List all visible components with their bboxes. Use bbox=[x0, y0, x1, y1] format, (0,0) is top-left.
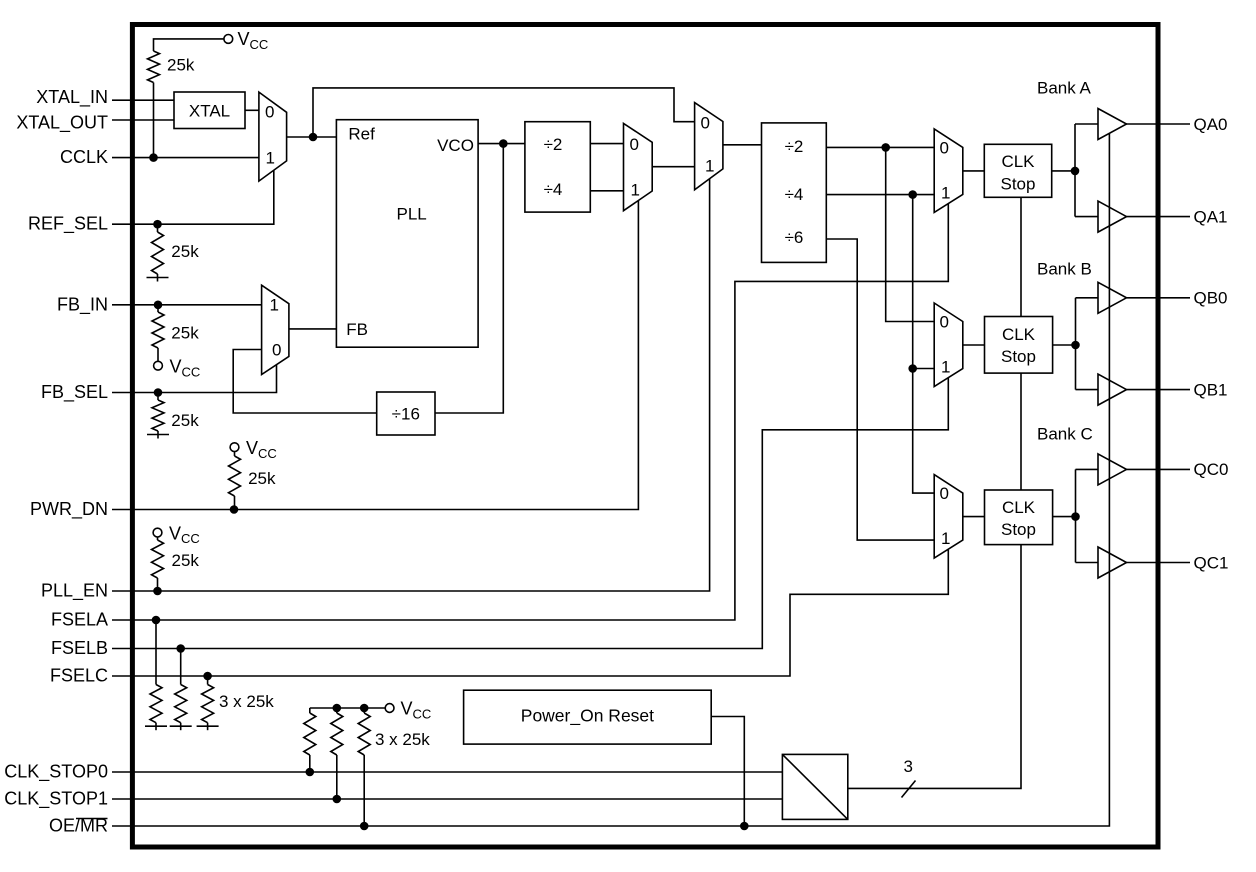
wire QA0 output bbox=[1127, 123, 1191, 125]
wire FB_IN to mux U3 input 1 bbox=[112, 301, 262, 310]
wire QB1 output bbox=[1127, 389, 1191, 391]
svg-text:Bank B: Bank B bbox=[1037, 260, 1092, 279]
Vcc symbol (CLK_STOP pull-ups) bbox=[310, 699, 431, 722]
svg-text:1: 1 bbox=[270, 296, 279, 315]
output buffer QB1 bbox=[1098, 374, 1127, 405]
pin label FB_SEL bbox=[41, 382, 108, 403]
resistor R3 25k (FB_IN pull-up) bbox=[152, 305, 199, 362]
output buffer QC0 bbox=[1098, 454, 1127, 485]
svg-text:25k: 25k bbox=[172, 551, 200, 570]
wire /4 out to bank A mux input 1, bank B mux input 1, bank C mux input 0 bbox=[826, 190, 934, 493]
ground (REF_SEL) bbox=[147, 274, 169, 282]
svg-text:1: 1 bbox=[266, 148, 275, 167]
wire /2 out to mux U4a input 0 bbox=[590, 143, 623, 145]
svg-text:÷4: ÷4 bbox=[785, 185, 804, 204]
pin label QB1 bbox=[1194, 380, 1228, 399]
svg-text:VCC: VCC bbox=[401, 699, 432, 722]
pin label QC0 bbox=[1194, 460, 1229, 479]
svg-text:VCC: VCC bbox=[238, 29, 269, 52]
wire XTAL_IN bbox=[112, 99, 174, 101]
svg-text:Stop: Stop bbox=[1001, 347, 1036, 366]
CLK Stop block B bbox=[985, 317, 1053, 374]
wire FSELA to bank A mux select bbox=[112, 204, 948, 625]
resistor R12 (OE/MR pull-up) bbox=[358, 708, 370, 826]
svg-text:0: 0 bbox=[701, 114, 710, 133]
svg-text:÷2: ÷2 bbox=[544, 135, 563, 154]
mux U7 (bank C select) bbox=[934, 475, 963, 558]
svg-text:Power_On Reset: Power_On Reset bbox=[521, 706, 654, 727]
pin label PWR_DN bbox=[30, 499, 108, 520]
pin label QA0 bbox=[1194, 115, 1228, 134]
resistor R9 (FSELC pull-down) bbox=[197, 676, 219, 730]
wire mux U3 output to PLL FB bbox=[289, 328, 337, 330]
Vcc symbol (CCLK pull-up) bbox=[224, 29, 268, 52]
mux U4 (PLL enable select) bbox=[695, 103, 723, 190]
svg-text:1: 1 bbox=[941, 183, 950, 202]
wire CLK Stop A output branch bbox=[1052, 124, 1098, 217]
pin label CLK_STOP0 bbox=[4, 762, 108, 783]
svg-text:QC1: QC1 bbox=[1194, 553, 1229, 572]
svg-text:VCO: VCO bbox=[437, 136, 474, 155]
output buffer QC1 bbox=[1098, 547, 1127, 578]
resistor R6 25k (PLL_EN pull-up) bbox=[152, 537, 200, 591]
Vcc symbol (FB_IN pull-up) bbox=[154, 357, 201, 380]
svg-text:25k: 25k bbox=[171, 411, 199, 430]
pin label OE/MR with overline on MR bbox=[49, 816, 108, 836]
svg-text:3 x 25k: 3 x 25k bbox=[375, 730, 430, 749]
wire /2 out to bank A mux input 0 and bank B mux input 0 bbox=[826, 143, 934, 321]
svg-text:CLK_STOP0: CLK_STOP0 bbox=[4, 762, 108, 783]
svg-text:QA0: QA0 bbox=[1194, 115, 1228, 134]
resistor R5 25k (PWR_DN pull-up) bbox=[229, 451, 277, 509]
svg-text:FSELC: FSELC bbox=[50, 666, 108, 686]
wire OE/MR line and buffer enable rail bbox=[112, 133, 1109, 830]
svg-text:Stop: Stop bbox=[1001, 520, 1036, 539]
label Bank B bbox=[1037, 260, 1092, 279]
label 3 x 25k (FSEL resistors) bbox=[219, 692, 274, 711]
wire REF_SEL to mux U1 select bbox=[112, 170, 274, 228]
wire CCLK to mux U1 input 1 bbox=[112, 153, 259, 162]
resistor R8 (FSELB pull-down) bbox=[170, 649, 192, 731]
CLK Stop block C bbox=[985, 490, 1053, 545]
svg-text:PLL: PLL bbox=[397, 205, 427, 224]
wire bank C mux to CLK Stop C bbox=[963, 516, 985, 518]
divider /2 /4 box bbox=[525, 122, 590, 212]
svg-text:XTAL_IN: XTAL_IN bbox=[36, 87, 108, 108]
wire mux U4 output to divider bank bbox=[723, 144, 762, 146]
mux U4a (VCO divider select) bbox=[624, 123, 653, 210]
svg-text:REF_SEL: REF_SEL bbox=[28, 214, 108, 235]
label Bank A bbox=[1037, 79, 1092, 98]
wire QA1 output bbox=[1127, 216, 1191, 218]
svg-text:25k: 25k bbox=[167, 56, 195, 75]
svg-text:Ref: Ref bbox=[348, 125, 375, 144]
svg-text:25k: 25k bbox=[248, 469, 276, 488]
svg-text:CCLK: CCLK bbox=[60, 147, 108, 167]
wire Power_On Reset to OE/MR node bbox=[711, 717, 744, 827]
label Bank C bbox=[1037, 425, 1093, 444]
CLK Stop block A bbox=[984, 144, 1051, 197]
wire FB_SEL to mux U3 select bbox=[112, 365, 277, 397]
wire PLL bypass feedforward (node to mux U4 input 0) bbox=[313, 88, 695, 137]
ground (FB_SEL) bbox=[147, 431, 169, 439]
wire R1 to CCLK node bbox=[153, 83, 155, 158]
wire clk-stop control bus (3) bbox=[848, 197, 1021, 788]
svg-text:VCC: VCC bbox=[169, 523, 200, 546]
wire VCO to /16 input bbox=[435, 144, 503, 413]
pin label QA1 bbox=[1194, 207, 1228, 226]
svg-text:QA1: QA1 bbox=[1194, 207, 1228, 226]
wire Vcc to resistor R1 bbox=[154, 39, 225, 51]
svg-text:÷2: ÷2 bbox=[785, 137, 804, 156]
svg-text:÷6: ÷6 bbox=[785, 228, 804, 247]
svg-text:FSELA: FSELA bbox=[51, 610, 108, 630]
pin label XTAL_IN bbox=[36, 87, 108, 108]
pin label PLL_EN bbox=[41, 581, 108, 602]
svg-text:CLK: CLK bbox=[1002, 325, 1036, 344]
svg-text:FSELB: FSELB bbox=[51, 638, 108, 658]
svg-text:0: 0 bbox=[940, 484, 949, 503]
resistor R1 25k (CCLK pull-up) bbox=[148, 51, 195, 83]
wire XTAL_OUT bbox=[112, 119, 174, 121]
svg-text:÷16: ÷16 bbox=[392, 405, 420, 424]
wire /16 output to mux U3 input 0 bbox=[233, 350, 377, 414]
svg-text:PWR_DN: PWR_DN bbox=[30, 499, 108, 520]
svg-text:3: 3 bbox=[904, 757, 913, 776]
svg-text:25k: 25k bbox=[171, 324, 199, 343]
svg-text:25k: 25k bbox=[171, 242, 199, 261]
wire FSELC to bank C mux select bbox=[112, 550, 948, 681]
svg-text:0: 0 bbox=[940, 313, 949, 332]
pin label FSELA bbox=[51, 610, 108, 630]
wire FSELB to bank B mux select bbox=[112, 378, 948, 653]
wire CLK Stop C output branch bbox=[1053, 469, 1098, 562]
svg-text:CLK: CLK bbox=[1001, 152, 1035, 171]
output buffer QA1 bbox=[1098, 201, 1127, 232]
wire bank A mux to CLK Stop A bbox=[963, 170, 985, 172]
output buffer QA0 bbox=[1098, 109, 1127, 140]
PLL block U2 bbox=[336, 120, 478, 348]
svg-text:0: 0 bbox=[272, 340, 281, 359]
svg-text:1: 1 bbox=[631, 181, 640, 200]
svg-text:1: 1 bbox=[705, 157, 714, 176]
wire CLK_STOP0 bbox=[112, 768, 782, 777]
mux U3 (feedback select) bbox=[262, 285, 289, 374]
wire QC0 output bbox=[1127, 468, 1191, 470]
wire CLK Stop B output branch bbox=[1053, 298, 1098, 390]
resistor R10 (CLK_STOP0 pull-up) bbox=[304, 708, 316, 772]
wire mux U4a output to mux U4 input 1 bbox=[652, 166, 694, 168]
mux U1 (reference select) bbox=[259, 92, 287, 181]
svg-text:FB: FB bbox=[346, 320, 368, 339]
wire /4 out to mux U4a input 1 bbox=[590, 190, 623, 192]
svg-text:PLL_EN: PLL_EN bbox=[41, 581, 108, 602]
svg-text:0: 0 bbox=[265, 102, 274, 121]
Vcc symbol (PWR_DN pull-up) bbox=[230, 438, 277, 461]
Power_On Reset block bbox=[464, 690, 712, 744]
svg-text:0: 0 bbox=[630, 135, 639, 154]
svg-text:1: 1 bbox=[941, 529, 950, 548]
resistor R7 (FSELA pull-down) bbox=[145, 620, 167, 730]
wire /6 out to bank C mux input 1 bbox=[826, 239, 934, 540]
wire CLK_STOP1 bbox=[112, 795, 782, 804]
wire QB0 output bbox=[1127, 297, 1191, 299]
svg-text:Bank A: Bank A bbox=[1037, 79, 1092, 98]
mux U5 (bank A select) bbox=[934, 129, 963, 213]
XTAL oscillator box bbox=[174, 92, 245, 129]
svg-text:QB0: QB0 bbox=[1194, 289, 1228, 308]
wire bank B mux to CLK Stop B bbox=[963, 344, 985, 346]
output buffer QB0 bbox=[1098, 282, 1127, 313]
svg-text:3 x 25k: 3 x 25k bbox=[219, 692, 274, 711]
svg-text:FB_IN: FB_IN bbox=[57, 294, 108, 315]
Vcc symbol (PLL_EN pull-up) bbox=[153, 523, 200, 546]
label 3 x 25k (CLK_STOP resistors) bbox=[375, 730, 430, 749]
resistor R2 25k (REF_SEL pull-down) bbox=[152, 224, 200, 274]
wire VCO output bbox=[478, 139, 525, 148]
pin label CLK_STOP1 bbox=[4, 789, 108, 810]
mux U6 (bank B select) bbox=[934, 303, 963, 387]
svg-text:CLK_STOP1: CLK_STOP1 bbox=[4, 789, 108, 810]
pin label FB_IN bbox=[57, 294, 108, 315]
svg-text:0: 0 bbox=[940, 139, 949, 158]
chip outline border bbox=[132, 25, 1158, 848]
svg-text:Stop: Stop bbox=[1001, 175, 1036, 194]
wire QC1 output bbox=[1127, 562, 1191, 564]
wire mux U1 output to PLL Ref bbox=[287, 133, 337, 142]
pin label FSELC bbox=[50, 666, 108, 686]
pin label REF_SEL bbox=[28, 214, 108, 235]
svg-text:CLK: CLK bbox=[1002, 498, 1036, 517]
pin label XTAL_OUT bbox=[16, 113, 108, 134]
wire XTAL out to mux U1 input 0 bbox=[245, 109, 259, 111]
svg-text:1: 1 bbox=[941, 357, 950, 376]
svg-text:QB1: QB1 bbox=[1194, 380, 1228, 399]
divider /16 box bbox=[377, 392, 435, 435]
svg-text:VCC: VCC bbox=[170, 357, 201, 380]
wire PWR_DN to mux U4a select bbox=[112, 201, 638, 514]
bus width marker 3 with slash bbox=[902, 757, 916, 798]
pin label FSELB bbox=[51, 638, 108, 658]
svg-text:QC0: QC0 bbox=[1194, 460, 1229, 479]
svg-text:FB_SEL: FB_SEL bbox=[41, 382, 108, 403]
svg-text:XTAL: XTAL bbox=[189, 102, 230, 121]
pin label CCLK bbox=[60, 147, 108, 167]
svg-text:XTAL_OUT: XTAL_OUT bbox=[16, 113, 108, 134]
pin label QC1 bbox=[1194, 553, 1229, 572]
resistor R11 (CLK_STOP1 pull-up) bbox=[331, 708, 343, 799]
pin label QB0 bbox=[1194, 289, 1228, 308]
svg-text:÷4: ÷4 bbox=[544, 180, 563, 199]
svg-text:Bank C: Bank C bbox=[1037, 425, 1093, 444]
resistor R4 25k (FB_SEL pull-down) bbox=[152, 393, 199, 432]
svg-text:VCC: VCC bbox=[246, 438, 277, 461]
divider /2 /4 /6 box bbox=[762, 123, 827, 263]
latch block (clk stop control) bbox=[782, 754, 847, 819]
wire PLL_EN to mux U4 select bbox=[112, 179, 710, 596]
